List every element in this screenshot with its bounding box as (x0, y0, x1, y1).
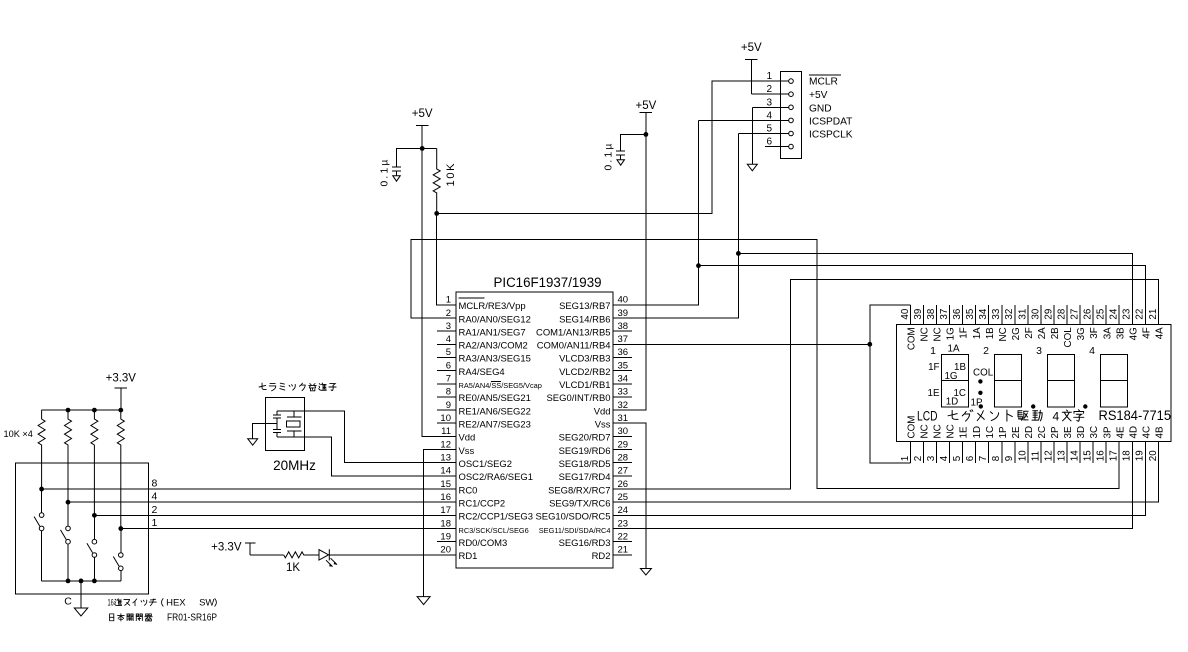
U1 pin 40 stub (559, 295, 632, 313)
wire 10K to PIC pin1 (437, 213, 456, 304)
wire pin12 Vss to ground (424, 450, 456, 597)
U1 pin 34 stub (559, 374, 632, 392)
svg-text:4G: 4G (1128, 327, 1139, 340)
DS1 pin 4 stub (939, 424, 957, 463)
wire SEG10/RC5 to LCD pin19 (613, 442, 1145, 516)
U1 pin 26 stub (548, 479, 632, 497)
capacitor pair inside resonator (273, 411, 281, 437)
svg-text:4C: 4C (1141, 426, 1152, 439)
svg-text:16: 16 (440, 492, 451, 503)
wire +3.3V top rail (42, 409, 121, 411)
DS1 pin 15 stub (1083, 426, 1101, 463)
svg-text:NC: NC (933, 327, 944, 341)
svg-text:NC: NC (920, 327, 931, 341)
wire resonator top node to OSC1 (277, 411, 437, 463)
DS1 pin 8 stub (991, 426, 1009, 463)
resistor RN3 10K pullup (91, 410, 98, 515)
wire switch common rail (42, 580, 121, 582)
svg-text:RC0: RC0 (459, 485, 478, 496)
resistor R1 10K (422, 148, 440, 213)
svg-text:20: 20 (1148, 450, 1159, 461)
svg-text:36: 36 (618, 347, 629, 358)
svg-text:31: 31 (618, 413, 629, 424)
DS1 pin 25 stub (1096, 305, 1114, 339)
svg-text:VLCD2/RB2: VLCD2/RB2 (559, 367, 610, 378)
svg-text:17: 17 (1109, 450, 1120, 461)
DS1 pin 16 stub (1096, 426, 1114, 463)
svg-text:RE0/AN5/SEG21: RE0/AN5/SEG21 (459, 393, 531, 404)
svg-text:19: 19 (440, 531, 451, 542)
svg-text:SEG10/SDO/RC5: SEG10/SDO/RC5 (535, 512, 610, 523)
svg-text:1A: 1A (972, 327, 983, 339)
svg-text:RC2/CCP1/SEG3: RC2/CCP1/SEG3 (459, 512, 533, 523)
U1 pin 39 stub (559, 308, 632, 326)
svg-text:RE2/AN7/SEG23: RE2/AN7/SEG23 (459, 420, 531, 431)
svg-text:5: 5 (952, 455, 963, 461)
connector J1 pin 2 (751, 84, 793, 96)
svg-text:19: 19 (1135, 450, 1146, 461)
U1 pin 38 stub (536, 321, 632, 339)
svg-text:SEG13/RB7: SEG13/RB7 (559, 301, 610, 312)
svg-text:25: 25 (618, 492, 629, 503)
DS1 pin 21 stub (1148, 305, 1166, 339)
svg-text:2C: 2C (1037, 426, 1048, 439)
svg-text:+5V: +5V (741, 42, 762, 54)
node +5V-A junction (420, 146, 425, 151)
label digit number 3 (1036, 345, 1042, 357)
svg-text:6: 6 (446, 360, 451, 371)
U1 pin 27 stub (559, 466, 632, 484)
node common rail jC (79, 579, 84, 584)
DS1 pin 6 stub (965, 426, 983, 463)
U1 pin 21 stub (592, 545, 632, 563)
DS1 pin 39 stub (913, 305, 931, 341)
svg-text:COM: COM (907, 416, 918, 439)
U1 pin 25 stub (549, 492, 632, 510)
wire RB6 to PIC pin39 (613, 253, 738, 318)
connector J1 pin 6 (765, 137, 793, 149)
svg-text:MCLR/RE3/Vpp: MCLR/RE3/Vpp (459, 301, 526, 312)
svg-text:34: 34 (618, 374, 629, 385)
U1 pin 20 stub (437, 545, 477, 563)
label U1 title PIC16F1937/1939 (494, 275, 602, 291)
wire resonator bottom node to OSC2 (277, 437, 437, 476)
node RB7 junction (696, 263, 701, 268)
svg-text:10: 10 (440, 413, 451, 424)
ground resonator (248, 439, 258, 446)
node colon dots (978, 379, 982, 395)
svg-text:1F: 1F (928, 362, 939, 373)
ground Vss right (640, 569, 651, 576)
DS1 pin 27 stub (1069, 305, 1087, 340)
DS1 pin 38 stub (926, 305, 944, 341)
label 10K x4 (4, 429, 33, 439)
svg-text:31: 31 (1017, 309, 1028, 320)
svg-text:33: 33 (991, 308, 1002, 319)
DS1 pin 18 stub (1122, 426, 1140, 463)
wire ICSP GND drop (751, 107, 753, 164)
wire RA0/SEG12 net (411, 239, 1119, 488)
DS1 pin 28 stub (1056, 305, 1074, 347)
svg-text:35: 35 (618, 360, 629, 371)
DS1 pin 35 stub (965, 305, 983, 339)
svg-text:1B: 1B (985, 327, 996, 339)
svg-text:RA0/AN0/SEG12: RA0/AN0/SEG12 (459, 314, 531, 325)
svg-text:3C: 3C (1089, 426, 1100, 439)
label maker line2 (110, 613, 218, 624)
node decimal point 2 (1031, 404, 1035, 408)
svg-text:2E: 2E (1011, 426, 1022, 438)
svg-text:16: 16 (108, 598, 114, 608)
digit 4 outline (1101, 355, 1128, 408)
label 1P (971, 398, 983, 409)
svg-text:OSC1/SEG2: OSC1/SEG2 (459, 459, 513, 470)
svg-text:10K: 10K (445, 162, 457, 187)
svg-text:8: 8 (446, 387, 451, 398)
svg-text:3D: 3D (1076, 426, 1087, 439)
DS1 pin 3 stub (926, 424, 944, 463)
svg-text:OSC2/RA6/SEG1: OSC2/RA6/SEG1 (459, 472, 533, 483)
wire resonator ground tap (253, 424, 277, 439)
DS1 pin 5 stub (952, 426, 970, 463)
node common rail j3 (92, 579, 97, 584)
svg-text:4A: 4A (1154, 327, 1165, 339)
svg-text:3: 3 (446, 321, 451, 332)
label C common (64, 596, 72, 608)
svg-text:1E: 1E (959, 426, 970, 438)
svg-text:1: 1 (766, 71, 772, 82)
svg-text:39: 39 (618, 308, 629, 319)
svg-text:SEG19/RD6: SEG19/RD6 (559, 446, 611, 457)
svg-text:21: 21 (1148, 309, 1159, 320)
DS1 pin 2 stub (913, 424, 931, 463)
wire switch line 2 to PIC (94, 514, 437, 516)
node +5V-B junction (644, 132, 649, 137)
svg-text:SEG14/RB6: SEG14/RB6 (559, 314, 610, 325)
svg-text:4E: 4E (1115, 426, 1126, 438)
switch box S1 (16, 463, 149, 594)
DS1 pin 11 stub (1030, 426, 1048, 463)
ground ICSP (747, 164, 757, 171)
U1 pin 28 stub (559, 453, 632, 471)
wire MCLR net to ICSP pin1 (437, 81, 789, 213)
svg-text:3P: 3P (1102, 426, 1113, 438)
svg-text:28: 28 (1056, 308, 1067, 319)
svg-text:RD0/COM3: RD0/COM3 (459, 538, 508, 549)
resistor RN1 10K pullup (38, 410, 45, 489)
svg-text:4F: 4F (1141, 327, 1152, 338)
svg-text:7: 7 (446, 374, 451, 385)
DS1 pin 10 stub (1017, 426, 1035, 463)
svg-text:29: 29 (1043, 309, 1054, 320)
svg-text:C: C (64, 596, 72, 608)
label 1B (954, 362, 966, 373)
svg-text:30: 30 (618, 426, 629, 437)
svg-text:12: 12 (440, 439, 451, 450)
node LCD COM junction (867, 342, 872, 347)
svg-text:1D: 1D (946, 397, 959, 408)
svg-text:LCD: LCD (917, 409, 938, 424)
svg-text:1: 1 (152, 517, 158, 529)
svg-text:Vss: Vss (459, 446, 475, 457)
DS1 pin 13 stub (1056, 426, 1074, 463)
node switch column 2 junction (66, 500, 71, 505)
capacitor C2 0.1u with ground (616, 134, 646, 165)
U1 pin 33 stub (547, 387, 632, 405)
wire SEG9/RC6 to LCD pin20 (613, 442, 1158, 503)
label 1D (946, 397, 959, 408)
digit 1 outline (942, 355, 969, 408)
wire SEG14 to LCD pin23 (738, 253, 1132, 324)
node common rail j2 (66, 579, 71, 584)
power +5V rail B symbol (636, 100, 657, 135)
svg-text:22: 22 (1135, 309, 1146, 320)
U1 pin 16 stub (437, 492, 505, 510)
U1 pin 18 stub (437, 518, 529, 535)
svg-text:GND: GND (809, 103, 832, 114)
svg-text:NC: NC (946, 424, 957, 438)
svg-text:40: 40 (618, 295, 629, 306)
svg-text:6: 6 (965, 455, 976, 461)
svg-text:COL: COL (973, 367, 994, 378)
svg-text:25: 25 (1096, 308, 1107, 319)
label digit number 4 (1089, 345, 1095, 357)
svg-text:1F: 1F (959, 327, 970, 338)
label C2 0.1u (604, 141, 615, 170)
svg-text:1G: 1G (944, 371, 957, 382)
svg-text:+3.3V: +3.3V (211, 542, 242, 554)
DS1 pin 24 stub (1109, 305, 1127, 339)
svg-text:2F: 2F (1024, 327, 1035, 338)
wire ICSPCLK vertical (737, 134, 739, 254)
svg-text:18: 18 (1122, 450, 1133, 461)
U1 pin 19 stub (437, 531, 507, 549)
svg-text:COM1/AN13/RB5: COM1/AN13/RB5 (536, 327, 610, 338)
svg-text:NC: NC (998, 327, 1009, 341)
svg-text:1: 1 (930, 345, 936, 357)
DS1 pin 31 stub (1017, 305, 1035, 339)
U1 pin 37 stub (537, 334, 632, 352)
U1 pin 12 stub (437, 439, 475, 457)
display DS1 LCD box (897, 324, 1172, 441)
svg-text:1E: 1E (928, 388, 940, 399)
connector J1 pin 4 (699, 110, 794, 122)
svg-text:9: 9 (446, 400, 451, 411)
svg-text:+5V: +5V (636, 100, 657, 112)
node decimal point 3 (1083, 404, 1087, 408)
switch S1-3 (87, 515, 97, 581)
svg-text:VLCD1/RB1: VLCD1/RB1 (559, 380, 610, 391)
switch S1-2 (61, 502, 71, 581)
wire LED to PIC pin20 (329, 554, 437, 556)
digit 2 outline (995, 355, 1022, 408)
svg-text:RD1: RD1 (459, 551, 478, 562)
svg-text:30: 30 (1030, 308, 1041, 319)
svg-text:11: 11 (1030, 451, 1041, 461)
svg-text:COM0/AN11/RB4: COM0/AN11/RB4 (537, 341, 611, 352)
U1 pin 11 stub (437, 426, 475, 444)
wire SEG11/RC4 to LCD pin18 (613, 442, 1132, 529)
wire SEG8/RC7 net (613, 279, 1158, 489)
svg-text:5: 5 (446, 347, 451, 358)
svg-text:10: 10 (1017, 450, 1028, 461)
svg-text:37: 37 (939, 309, 950, 320)
node rail junction 2 (66, 408, 71, 413)
svg-text:1: 1 (900, 456, 911, 461)
U1 pin 7 stub (437, 374, 542, 391)
svg-text:14: 14 (440, 466, 451, 477)
svg-text:1G: 1G (946, 327, 957, 340)
svg-text:4: 4 (766, 110, 772, 121)
svg-text:5: 5 (766, 124, 772, 135)
svg-text:+3.3V: +3.3V (106, 373, 137, 385)
svg-text:1K: 1K (286, 562, 300, 574)
U1 pin 24 stub (535, 505, 632, 523)
svg-text:RC3/SCK/SCL/SEG6: RC3/SCK/SCL/SEG6 (459, 526, 529, 535)
svg-text:Vss: Vss (595, 420, 611, 431)
svg-text:33: 33 (618, 387, 629, 398)
U1 pin 14 stub (437, 466, 533, 484)
connector J1 ICSP box (780, 72, 801, 159)
U1 pin 22 stub (559, 531, 632, 549)
svg-text:2: 2 (152, 504, 158, 516)
resistor R2 1K (284, 552, 304, 558)
svg-text:PIC16F1937/1939: PIC16F1937/1939 (494, 275, 602, 291)
wire LCD COM loop (870, 305, 911, 463)
svg-text:1P: 1P (998, 426, 1009, 438)
svg-text:22: 22 (618, 531, 629, 542)
svg-text:32: 32 (618, 400, 629, 411)
svg-text:RA4/SEG4: RA4/SEG4 (459, 367, 505, 378)
U1 pin 29 stub (559, 439, 632, 457)
U1 pin 5 stub (437, 347, 531, 365)
label GND (809, 103, 832, 114)
U1 pin 3 stub (437, 321, 526, 339)
svg-text:Vdd: Vdd (594, 406, 611, 417)
wire SEG13 to LCD pin22 (699, 266, 1146, 325)
svg-text:8: 8 (991, 455, 1002, 461)
svg-text:3F: 3F (1089, 327, 1100, 338)
svg-text:2: 2 (766, 84, 772, 95)
label digit number 1 (930, 345, 936, 357)
U1 pin 4 stub (437, 334, 528, 352)
svg-text:27: 27 (1069, 309, 1080, 320)
svg-text:COL: COL (1063, 327, 1074, 348)
svg-text:1C: 1C (985, 426, 996, 439)
svg-text:RC1/CCP2: RC1/CCP2 (459, 499, 506, 510)
label line 1 (152, 517, 158, 529)
svg-text:38: 38 (926, 308, 937, 319)
svg-text:9: 9 (1004, 456, 1015, 461)
svg-text:4: 4 (939, 455, 950, 461)
label R1 10K (445, 162, 457, 187)
node RB6 junction (736, 251, 741, 256)
svg-text:10K ×4: 10K ×4 (4, 429, 33, 439)
svg-text:0.1µ: 0.1µ (604, 141, 615, 170)
label 1G (944, 371, 957, 382)
svg-text:2: 2 (983, 345, 989, 357)
svg-text:NC: NC (933, 424, 944, 438)
node switch column 4 junction (118, 526, 123, 531)
DS1 pin 34 stub (978, 305, 996, 339)
svg-text:13: 13 (440, 453, 451, 464)
label ICSPCLK (809, 130, 853, 141)
U1 pin 23 stub (539, 518, 632, 535)
wire COM0 to LCD COM (613, 343, 870, 345)
svg-text:14: 14 (1069, 450, 1080, 461)
svg-text:VLCD3/RB3: VLCD3/RB3 (559, 354, 610, 365)
label 1A (948, 344, 960, 355)
resistor RN2 10K pullup (65, 410, 72, 502)
U1 pin 9 stub (437, 400, 531, 418)
svg-text:37: 37 (618, 334, 629, 345)
power +5V ICSP symbol (741, 42, 762, 94)
svg-text:FR01-SR16P: FR01-SR16P (167, 613, 217, 624)
connector J1 pin 5 (738, 124, 793, 136)
svg-text:32: 32 (1004, 309, 1015, 320)
power +5V rail A symbol (412, 108, 433, 148)
svg-text:RS184-7715: RS184-7715 (1099, 408, 1172, 423)
label COL (973, 367, 994, 378)
wire resistor to LED (304, 554, 319, 556)
svg-text:38: 38 (618, 321, 629, 332)
U1 pin 8 stub (437, 387, 531, 405)
svg-text:3: 3 (766, 97, 772, 108)
svg-text:20: 20 (440, 545, 451, 556)
svg-text:2B: 2B (1050, 327, 1061, 339)
wire pin31 Vss to ground (613, 423, 646, 568)
U1 pin 30 stub (559, 426, 632, 444)
U1 pin 35 stub (559, 360, 632, 378)
label 1F (928, 362, 939, 373)
DS1 pin 37 stub (939, 305, 957, 340)
wire ICSPDAT vertical (698, 120, 700, 265)
DS1 pin 30 stub (1030, 305, 1048, 339)
svg-text:7: 7 (978, 456, 989, 461)
svg-text:3: 3 (1036, 345, 1042, 357)
label 1C (953, 388, 966, 399)
svg-text:2A: 2A (1037, 327, 1048, 339)
svg-text:4B: 4B (1154, 426, 1165, 438)
ground switch common (74, 608, 88, 616)
svg-text:4D: 4D (1128, 426, 1139, 439)
svg-text:NC: NC (920, 424, 931, 438)
svg-text:23: 23 (618, 518, 629, 529)
power +3.3V LED symbol (211, 542, 255, 555)
svg-text:18: 18 (440, 518, 451, 529)
diode LED D1 (319, 549, 337, 566)
wire RB7 to PIC pin40 (613, 266, 699, 305)
DS1 pin 9 stub (1004, 426, 1022, 463)
svg-text:RA3/AN3/SEG15: RA3/AN3/SEG15 (459, 354, 531, 365)
connector J1 pin 1 (712, 71, 793, 83)
DS1 pin 7 stub (978, 426, 996, 463)
DS1 pin 23 stub (1122, 305, 1140, 340)
svg-text:2: 2 (446, 308, 451, 319)
svg-text:35: 35 (965, 308, 976, 319)
svg-text:36: 36 (952, 308, 963, 319)
svg-text:+5V: +5V (809, 90, 828, 101)
label MCLR with overline (809, 75, 841, 87)
svg-text:2D: 2D (1024, 426, 1035, 439)
svg-text:HEX: HEX (166, 598, 186, 609)
label line 4 (152, 491, 158, 503)
svg-text:24: 24 (1109, 308, 1120, 319)
svg-text:1A: 1A (948, 344, 960, 355)
svg-text:26: 26 (1083, 308, 1094, 319)
svg-text:SEG16/RD3: SEG16/RD3 (559, 538, 611, 549)
node switch column 3 junction (92, 513, 97, 518)
